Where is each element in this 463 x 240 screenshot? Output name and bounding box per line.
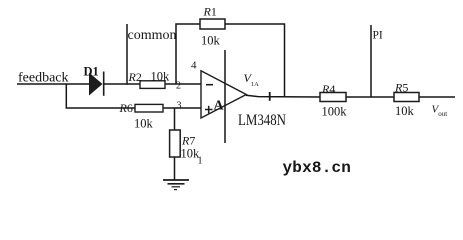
resistor R5 xyxy=(394,93,419,102)
svg-text:R7: R7 xyxy=(181,134,195,148)
wire op-amp power rail xyxy=(224,50,226,143)
svg-text:LM348N: LM348N xyxy=(238,112,286,129)
svg-text:Vout: Vout xyxy=(432,104,448,119)
svg-text:R1: R1 xyxy=(203,5,217,19)
svg-text:4: 4 xyxy=(191,60,197,72)
svg-text:R5: R5 xyxy=(394,81,408,95)
resistor R4 xyxy=(320,93,346,102)
svg-text:2: 2 xyxy=(176,81,181,92)
wire R6 to pin 3 xyxy=(163,107,201,109)
svg-text:R6: R6 xyxy=(119,101,133,115)
wire R1 right branch xyxy=(225,24,285,97)
wire R4 to node P1 to R5 xyxy=(346,96,394,98)
svg-text:A: A xyxy=(214,99,225,114)
svg-text:R4: R4 xyxy=(321,82,335,96)
resistor R6 xyxy=(135,104,163,112)
wire common rail xyxy=(126,24,128,85)
wire R1 left branch xyxy=(176,24,200,84)
svg-text:PI: PI xyxy=(373,30,383,42)
pin 1 tick xyxy=(269,92,271,101)
wire R5 to Vout xyxy=(419,96,455,98)
op-amp U1 triangle xyxy=(201,71,246,118)
op-amp plus sign xyxy=(205,106,213,114)
svg-text:10k: 10k xyxy=(395,104,415,118)
svg-text:common: common xyxy=(128,28,177,43)
svg-text:1: 1 xyxy=(198,156,203,167)
wire junction drop before D1 xyxy=(66,84,135,108)
svg-text:D1: D1 xyxy=(84,65,99,79)
wire feedback input xyxy=(17,83,90,85)
diode D1 xyxy=(89,72,104,96)
svg-text:R2: R2 xyxy=(128,70,142,84)
svg-text:V1A: V1A xyxy=(244,71,260,88)
ground xyxy=(163,180,189,190)
svg-text:feedback: feedback xyxy=(18,70,69,85)
svg-text:ybx8.cn: ybx8.cn xyxy=(283,159,352,177)
wire P1 rail xyxy=(370,25,372,97)
svg-text:10k: 10k xyxy=(134,117,154,131)
wire D1 cathode to R2 xyxy=(104,83,141,85)
op-amp minus sign xyxy=(206,84,213,86)
wire R7 top xyxy=(174,108,176,130)
wire R7 to ground xyxy=(174,157,176,180)
svg-text:3: 3 xyxy=(177,101,182,112)
wire output xyxy=(246,95,320,97)
svg-text:10k: 10k xyxy=(201,34,221,48)
resistor R7 xyxy=(170,130,181,157)
resistor R2 xyxy=(140,81,165,89)
svg-text:100k: 100k xyxy=(322,105,348,119)
wire R2 to pin 2 xyxy=(165,83,201,85)
resistor R1 xyxy=(200,19,225,29)
svg-text:10k: 10k xyxy=(151,70,171,84)
